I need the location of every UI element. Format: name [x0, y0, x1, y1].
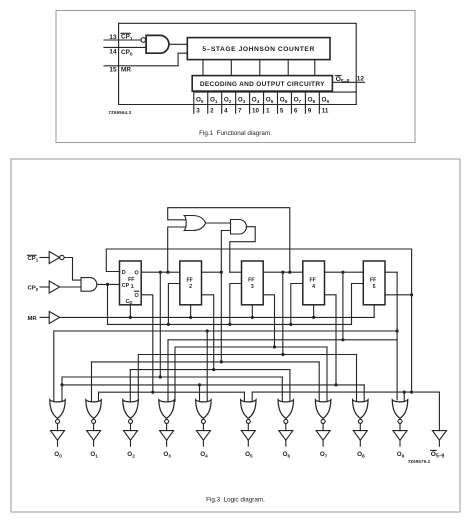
junction MR rail FF2 [189, 316, 192, 319]
svg-text:13: 13 [109, 34, 117, 41]
svg-text:FF: FF [128, 277, 134, 283]
svg-text:CP1: CP1 [121, 34, 133, 43]
svg-text:CP1: CP1 [28, 256, 39, 263]
wire Q5 [385, 271, 397, 273]
CP rail [108, 323, 352, 325]
junction MR rail FF4 [312, 316, 315, 319]
wire drop to O9 right input [403, 392, 405, 401]
junction Q1 decode tap [159, 271, 162, 274]
wire Q5 distribution [54, 330, 397, 332]
output cell O4 separator [249, 92, 251, 113]
connectors counter to decoder [202, 60, 204, 76]
wire NOR O2 to buffer [130, 424, 132, 431]
svg-text:MR: MR [28, 316, 38, 322]
gate U1 AND with inverting input (clock gate) [141, 38, 146, 43]
gate U4 AND (clock combine) [81, 278, 97, 292]
wire Q4 to D5 [325, 271, 364, 273]
output cell O6 separator [277, 92, 279, 113]
buffer O1 [87, 431, 101, 441]
wire D3 input [230, 271, 242, 273]
svg-text:O4: O4 [252, 97, 260, 105]
svg-text:O5–9: O5–9 [336, 76, 350, 85]
gate NOR O0 [50, 400, 65, 419]
wire Q2 down to decode [220, 272, 222, 362]
gate NOR O8 [353, 400, 368, 419]
svg-text:7: 7 [238, 107, 242, 114]
svg-text:CP0: CP0 [28, 286, 39, 293]
svg-text:7Z69579.2: 7Z69579.2 [408, 459, 431, 464]
wire MR into counter box [178, 53, 187, 66]
wire Q2 to AND bottom input [221, 231, 230, 273]
wire Q4 distribution [168, 339, 397, 341]
wire Q1 distribution [62, 376, 282, 378]
svg-text:6: 6 [294, 107, 298, 114]
wire OR output to AND input [206, 222, 231, 224]
svg-text:O8: O8 [308, 97, 316, 105]
junction Q5not node [410, 293, 413, 296]
svg-text:14: 14 [109, 48, 117, 55]
wire CP riser FF4 [291, 284, 303, 325]
buffer O3 [160, 431, 174, 441]
svg-text:10: 10 [252, 107, 260, 114]
block: 5-stage Johnson counter [187, 38, 330, 60]
svg-text:FF: FF [186, 277, 192, 283]
wire CP1 inverter to AND gate [64, 258, 81, 281]
flip-flop FF5 [363, 261, 385, 305]
gate U7 AND (self-correction) [231, 220, 247, 235]
wire CD riser FF4 [313, 305, 315, 318]
wire Q3not distribution [175, 346, 327, 348]
wire CP down to CP rail [107, 284, 109, 324]
svg-text:5: 5 [280, 107, 284, 114]
junction CP rail FF4 [289, 323, 292, 326]
svg-text:15: 15 [109, 67, 117, 74]
wire Q1not [141, 295, 153, 392]
junction MR rail FF3 [251, 316, 254, 319]
svg-text:11: 11 [322, 107, 329, 114]
inverter U2 (CP1) [49, 252, 59, 264]
output cell O0 separator [193, 92, 195, 113]
wire Q1not distribution [99, 391, 245, 393]
svg-text:MR: MR [121, 67, 131, 74]
svg-text:O4: O4 [200, 451, 208, 459]
wire drop to O4 left input [199, 385, 201, 401]
svg-text:O6: O6 [280, 97, 288, 105]
svg-text:O9: O9 [397, 451, 405, 459]
wire CP0 buffer to AND gate [60, 286, 81, 288]
wire CD riser FF3 [251, 305, 253, 318]
wire AND output to D3 [230, 227, 255, 273]
buffer O2 [124, 431, 138, 441]
svg-text:O2: O2 [224, 97, 232, 105]
wire Q2 distribution [92, 361, 320, 363]
junction CP node [106, 283, 109, 286]
wire Q1 down to decode [159, 272, 161, 377]
svg-text:O5–9: O5–9 [431, 451, 445, 460]
flip-flop FF4 [303, 261, 325, 305]
wire CP riser FF5 [352, 284, 364, 325]
wire CP riser FF2 [168, 284, 179, 325]
wire NOR O4 to buffer [202, 424, 204, 431]
flip-flop FF2 [180, 261, 202, 305]
wire output O9 [399, 440, 401, 446]
wire Q2 [202, 271, 222, 273]
svg-text:CP0: CP0 [121, 49, 133, 58]
svg-text:O3: O3 [238, 97, 246, 105]
wire Q1 to D2 [141, 271, 180, 273]
buffer U3 (CP0) [49, 281, 59, 293]
wire NOR O3 to buffer [166, 424, 168, 431]
wire Q3not [263, 295, 274, 348]
flip-flop FF1 [120, 261, 142, 305]
svg-text:CP: CP [122, 283, 130, 289]
wire output O0 [57, 440, 59, 446]
functional diagram outer box [119, 23, 357, 104]
gate NOR O7 [315, 400, 330, 419]
svg-text:2: 2 [210, 107, 214, 114]
svg-text:2: 2 [189, 284, 192, 290]
wire NOR O8 to buffer [359, 424, 361, 431]
svg-text:FF: FF [309, 277, 315, 283]
wire Q3 to D4 [263, 271, 303, 273]
svg-text:CD: CD [126, 299, 133, 305]
svg-text:3: 3 [196, 107, 200, 114]
wire CD riser FF2 [190, 305, 192, 318]
wire NOR O9 to buffer [399, 424, 401, 431]
svg-text:O7: O7 [294, 97, 302, 105]
MR rail [60, 316, 375, 318]
svg-text:O5: O5 [245, 451, 253, 459]
gate U6 OR (self-correction) [184, 216, 205, 231]
svg-text:1: 1 [131, 284, 134, 290]
gate NOR O3 [159, 400, 174, 419]
output cell O1 separator [207, 92, 209, 113]
buffer U5 (MR) [49, 312, 59, 324]
gate NOR O9 [392, 400, 407, 419]
wire NOR O5 to buffer [247, 424, 249, 431]
wire Q5not down to decode [411, 295, 413, 392]
wire Q2not [202, 295, 214, 370]
svg-text:9: 9 [308, 107, 312, 114]
gate NOR O6 [278, 400, 293, 419]
wire pin14 CP0 input [104, 46, 146, 48]
wire Q4not [325, 295, 337, 385]
svg-text:D: D [122, 270, 126, 276]
svg-text:O1: O1 [210, 97, 218, 105]
wire NOR O0 to buffer [57, 424, 59, 431]
buffer O7 [316, 431, 330, 441]
flip-flop FF3 [242, 261, 264, 305]
output cell O9 separator [318, 92, 320, 113]
wire B: Q5not feedback to D1 [106, 249, 411, 295]
svg-text:3: 3 [251, 284, 254, 290]
wire output O2 [130, 440, 132, 446]
junction CP rail FF3 [228, 323, 231, 326]
wire Q5not [385, 294, 412, 296]
wire output O8 [359, 440, 361, 446]
wire Q5 down to decode [396, 272, 398, 400]
gate NOR O2 [123, 400, 138, 419]
gate NOR O4 [196, 400, 211, 419]
svg-text:O: O [135, 293, 139, 299]
buffer O8 [353, 431, 367, 441]
wire drop to O4 right input [206, 331, 208, 401]
svg-text:FF: FF [370, 277, 376, 283]
buffer O9 [393, 431, 407, 441]
output cell O3 separator [235, 92, 237, 113]
wire output O7 [322, 440, 324, 446]
svg-text:O0: O0 [54, 451, 62, 459]
svg-text:O: O [135, 270, 139, 276]
buffer O5 [241, 431, 255, 441]
wire NOR O7 to buffer [322, 424, 324, 431]
svg-text:5–STAGE JOHNSON COUNTER: 5–STAGE JOHNSON COUNTER [202, 46, 314, 53]
svg-text:4: 4 [224, 107, 228, 114]
svg-text:O0: O0 [196, 97, 204, 105]
wire pin13 CP1 input [104, 39, 141, 41]
wire Q1 to OR bottom input [168, 227, 186, 272]
wire output O5-9 [438, 440, 440, 446]
svg-text:DECODING AND OUTPUT CIRCUITRY: DECODING AND OUTPUT CIRCUITRY [200, 81, 325, 88]
junction Q3 decode tap [281, 271, 284, 274]
svg-text:1: 1 [266, 107, 270, 114]
wire to O5-9 buffer [438, 392, 440, 431]
buffer O0 [51, 431, 65, 441]
svg-text:Fig.3 Logic diagram.: Fig.3 Logic diagram. [206, 497, 265, 504]
wire Q5not distribution [252, 391, 439, 393]
wire output O3 [166, 440, 168, 446]
junction Q1 OR-gate tap [166, 271, 169, 274]
output cell O2 separator [221, 92, 223, 113]
junction MR rail FF1 [129, 316, 132, 319]
wire NOR O1 to buffer [93, 424, 95, 431]
output cells row O0..O9 [194, 91, 356, 93]
wire NOR O6 to buffer [285, 424, 287, 431]
svg-text:O1: O1 [90, 451, 98, 459]
wire output O6 [285, 440, 287, 446]
buffer O5-9 [432, 431, 446, 441]
gate NOR O5 [241, 400, 256, 419]
block: decoding and output circuitry [192, 76, 332, 92]
wire Q3 down to decode [282, 272, 284, 355]
wire Q4not distribution [62, 384, 364, 386]
svg-text:FF: FF [248, 277, 254, 283]
wire A: Q3 feedback to OR top input [168, 208, 290, 273]
wire Q3 distribution [138, 354, 356, 356]
junction Q2 node [220, 271, 223, 274]
gate NOR O1 [86, 400, 101, 419]
output O5-9 wire, pin 12 [332, 81, 364, 83]
output cell O8 separator [304, 92, 306, 113]
output cell O7 separator [290, 92, 292, 113]
svg-text:5: 5 [373, 284, 376, 290]
wire CD riser FF5 [373, 305, 375, 318]
wire Q2not distribution [130, 369, 290, 371]
wire Q4 down to decode [342, 272, 344, 340]
wire output O1 [93, 440, 95, 446]
svg-text:O8: O8 [357, 451, 365, 459]
svg-text:O9: O9 [322, 97, 330, 105]
buffer O6 [279, 431, 293, 441]
wire CP to FF1 [97, 283, 120, 285]
svg-text:4: 4 [312, 284, 315, 290]
wire CD riser FF1 [129, 305, 131, 318]
wire CP riser FF3 [230, 284, 242, 325]
junction Q4 decode tap [341, 271, 344, 274]
buffer O4 [196, 431, 210, 441]
svg-text:Fig.1 Functional diagram.: Fig.1 Functional diagram. [199, 130, 272, 137]
svg-text:O2: O2 [127, 451, 135, 459]
wire output O5 [247, 440, 249, 446]
wire output O4 [202, 440, 204, 446]
junction Q3 OR-gate tap [288, 271, 291, 274]
svg-text:7Z69564.3: 7Z69564.3 [109, 110, 132, 115]
svg-text:O3: O3 [163, 451, 171, 459]
output cell O5 separator [263, 92, 265, 113]
svg-text:12: 12 [357, 76, 365, 83]
wire pin15 MR input [104, 65, 178, 67]
svg-text:O6: O6 [283, 451, 291, 459]
junction CP rail FF2 [167, 323, 170, 326]
wire gate output to counter [169, 43, 187, 45]
Fig.3 frame [11, 159, 460, 512]
Fig.1 frame [56, 11, 415, 143]
svg-text:O5: O5 [266, 97, 274, 105]
svg-text:O7: O7 [320, 451, 328, 459]
